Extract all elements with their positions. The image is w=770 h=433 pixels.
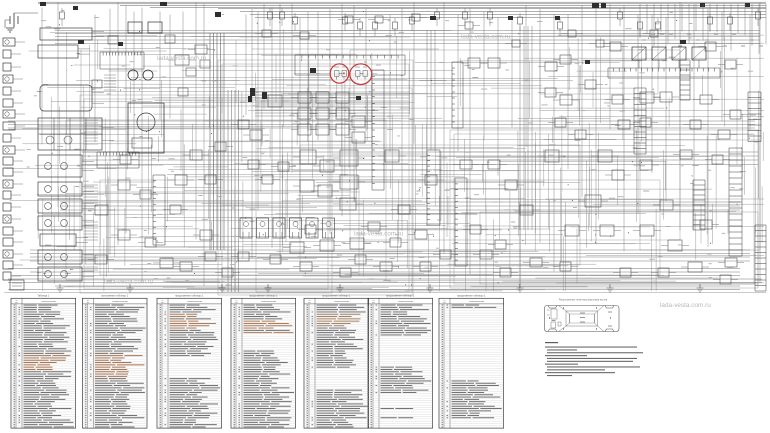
component A89: [495, 240, 506, 249]
component A65: [120, 155, 131, 164]
fuse F6: [592, 3, 599, 8]
wire stub comb: [84, 185, 98, 206]
connector X5 ECU: [427, 150, 440, 225]
svg-text:Расположение точек масс/разъем: Расположение точек масс/разъемов жгутов: [559, 299, 608, 302]
connector XL19: [3, 250, 13, 258]
component A85: [730, 110, 741, 119]
wire bundle ribbon R6 vertical: [520, 26, 532, 230]
component A16: [468, 58, 480, 68]
ground: [337, 284, 344, 292]
legend table group 2 row lines: [82, 306, 147, 426]
component A34: [300, 262, 312, 271]
component small: [92, 80, 102, 88]
wire trunk V25: [341, 4, 343, 217]
relay K13: [692, 47, 706, 60]
wire trunk V1: [41, 8, 43, 145]
wire stub comb: [104, 75, 116, 90]
component A102: [412, 14, 420, 21]
component small: [186, 68, 196, 76]
component A75: [555, 118, 566, 127]
component A87: [725, 60, 736, 69]
notes title: [545, 342, 558, 343]
component A7: [340, 175, 358, 189]
wire: [13, 102, 23, 104]
wire: [13, 241, 23, 243]
fuse F2: [160, 2, 167, 6]
component U10 (left stack): [38, 250, 82, 264]
terminal strip XT6: [634, 88, 646, 154]
wire: [76, 241, 88, 243]
component A115: [336, 108, 349, 119]
connector XL2: [3, 50, 11, 58]
wire: [15, 113, 25, 115]
wire trunk V29: [401, 8, 403, 231]
component A62: [278, 162, 289, 171]
wire: [92, 31, 104, 33]
component A70: [500, 268, 511, 277]
component U4 (left stack): [38, 118, 102, 150]
component A69: [420, 262, 431, 271]
component A99: [300, 32, 309, 39]
wire: [11, 275, 21, 277]
svg-text:lada-vesta.com.ru: lada-vesta.com.ru: [157, 55, 207, 62]
wire band y30: [55, 31, 760, 44]
component A25: [585, 195, 601, 207]
component small: [108, 36, 118, 44]
wire: [78, 48, 90, 50]
connector X2 (pin strip): [97, 152, 139, 168]
wire: [102, 127, 114, 129]
svg-text:Наименование: Наименование: [398, 301, 414, 303]
wire: [678, 60, 680, 68]
wire trunk V16: [257, 12, 259, 211]
component A15: [425, 175, 437, 185]
fuse F11: [78, 40, 84, 44]
connector XC6: [323, 218, 335, 238]
legend table group 4 frame: [231, 298, 296, 428]
wire: [82, 191, 94, 193]
wire: [82, 161, 94, 163]
wire: [82, 169, 94, 171]
wire: [13, 230, 23, 232]
wire: [82, 276, 94, 278]
component A76: [575, 130, 586, 139]
svg-text:поз.: поз.: [86, 302, 90, 304]
component A88: [470, 225, 481, 234]
wire bundle ribbon R5 vertical right: [427, 30, 435, 150]
component A97: [145, 238, 156, 247]
component U11 (left stack): [38, 267, 82, 281]
svg-text:продолжение таблицы 1: продолжение таблицы 1: [175, 295, 204, 298]
component A80: [545, 88, 556, 97]
wire trunk V30: [413, 2, 415, 144]
component A45: [460, 160, 472, 169]
wire: [102, 139, 114, 141]
component A55: [660, 200, 673, 210]
wire: [82, 259, 94, 261]
lamp EL1: [5, 40, 9, 44]
connector XL11: [3, 157, 13, 165]
wire trunk V44: [623, 5, 625, 251]
component A61: [262, 175, 273, 184]
wire trunk V36: [511, 18, 513, 128]
component A11: [385, 150, 399, 162]
svg-text:lada-vesta.com.ru: lada-vesta.com.ru: [104, 279, 154, 286]
wire: [15, 149, 25, 151]
wire loop L4: [222, 64, 409, 291]
wire: [5, 13, 38, 28]
component A50: [618, 120, 630, 129]
wire bus B1: [38, 1, 766, 3]
component A93: [305, 225, 316, 234]
legend table group 7 row lines: [439, 306, 504, 426]
wire loop L6: [454, 134, 754, 284]
svg-text:приложение таблицы 1: приложение таблицы 1: [101, 295, 129, 298]
fuse F7: [601, 3, 606, 8]
component A116: [298, 124, 311, 135]
component A13: [320, 240, 334, 251]
note line 5: [547, 358, 637, 359]
wire trunk V51: [721, 12, 723, 122]
note line 6: [547, 361, 633, 362]
wire bus BB7: [8, 289, 740, 291]
fuse FT5: [343, 17, 348, 24]
component A57: [415, 230, 427, 239]
component A108: [238, 120, 249, 129]
component A39: [200, 230, 212, 240]
fuse F5: [310, 68, 316, 73]
component A54: [725, 258, 737, 267]
connector XC5: [306, 218, 318, 238]
component A33: [380, 262, 392, 271]
component A38: [95, 255, 107, 264]
wire band y202: [60, 202, 740, 210]
wire: [82, 225, 94, 227]
wire bus BB2: [30, 271, 740, 273]
component A20: [598, 150, 612, 162]
connector X7: [455, 178, 467, 266]
ground: [219, 284, 226, 292]
wire mesh verticals: [38, 29, 763, 291]
fuse FT13: [518, 17, 523, 24]
connector X8: [153, 175, 165, 245]
legend table group 4 row text: [234, 305, 295, 428]
fuse F4: [250, 88, 255, 96]
component A56: [680, 150, 692, 159]
wire trunk V47: [665, 18, 667, 202]
wire trunk V46: [651, 15, 653, 173]
component A32: [480, 250, 492, 259]
note line 9: [547, 369, 605, 370]
component A46: [505, 180, 517, 190]
svg-text:поз.: поз.: [15, 302, 19, 304]
component A22: [640, 92, 654, 103]
component A66: [205, 175, 216, 184]
wire: [11, 137, 21, 139]
wire trunk V2: [57, 2, 59, 207]
fuse FT3: [280, 12, 285, 19]
svg-text:поз.: поз.: [372, 302, 376, 304]
wire: [13, 160, 23, 162]
wire: [11, 90, 21, 92]
legend table group 4 row lines: [231, 306, 296, 426]
wire: [82, 219, 94, 221]
wire stub comb: [84, 120, 98, 144]
wire: [13, 253, 23, 255]
svg-text:продолжение таблицы 1: продолжение таблицы 1: [386, 295, 415, 298]
wire loop L1: [80, 95, 332, 293]
wire: [11, 194, 21, 196]
wire bus B2: [38, 3, 766, 5]
component A84: [712, 155, 723, 164]
component U2 (left stack): [38, 45, 78, 58]
wire trunk V3: [94, 15, 96, 143]
component A68: [340, 268, 351, 277]
wire loop L2: [84, 99, 328, 289]
lamp EL19: [5, 252, 9, 256]
labels top-right: [642, 34, 763, 46]
wire trunk V34: [483, 12, 485, 141]
wire: [13, 78, 23, 80]
component A77: [612, 95, 623, 104]
component A117: [316, 124, 329, 135]
wire trunk V43: [609, 4, 611, 129]
connector XL14: [3, 191, 11, 199]
wire trunk V17: [263, 4, 265, 109]
relay K1: [128, 22, 142, 33]
component A119: [352, 116, 365, 127]
wire: [11, 218, 21, 220]
ground: [6, 28, 14, 32]
ground: [57, 284, 64, 292]
wire trunk V32: [457, 15, 459, 152]
wire: [638, 60, 640, 68]
wire trunk V35: [497, 18, 499, 176]
component A63: [170, 205, 181, 214]
component U5 (left stack): [38, 155, 82, 177]
wire: [15, 41, 25, 43]
component small: [165, 35, 175, 43]
lamp EL10: [5, 148, 9, 152]
fuse FT7: [373, 22, 378, 29]
note line 4: [545, 355, 587, 356]
connector XL13: [3, 180, 13, 188]
connector XL20: [3, 261, 13, 269]
fuse F12: [262, 92, 267, 99]
connector XC1: [240, 218, 252, 238]
legend table group 6 row text: [371, 305, 432, 428]
component A109: [215, 142, 226, 151]
fuse FT1: [60, 12, 65, 19]
wire trunk V14: [245, 15, 247, 116]
wire trunk V31: [443, 2, 445, 254]
ground: [427, 284, 434, 292]
ground: [265, 284, 272, 292]
note line 8: [547, 366, 640, 367]
wire loop L14: [350, 50, 680, 240]
wire bus BB5: [8, 282, 762, 284]
ground: [517, 284, 524, 292]
component A120: [352, 132, 365, 143]
wire trunk V9: [159, 12, 161, 120]
component A100: [345, 16, 353, 23]
wire trunk V52: [749, 15, 751, 131]
wire bus B5: [218, 8, 766, 10]
component A105: [568, 30, 576, 37]
wire trunk V6: [125, 5, 127, 233]
connector XC4: [290, 218, 302, 238]
connector XL6: [3, 99, 13, 107]
component A86: [705, 42, 716, 51]
component A36: [180, 262, 192, 271]
component A28: [640, 225, 654, 236]
wire stub comb: [84, 255, 98, 270]
component A6: [340, 150, 358, 166]
svg-text:Наименование: Наименование: [41, 301, 57, 303]
connector XC3: [273, 218, 285, 238]
component A59: [368, 222, 380, 231]
car wheel rear-left: [605, 306, 614, 309]
fuse FT12: [488, 12, 493, 19]
component A94: [270, 255, 281, 264]
legend table group 7 row text: [442, 305, 502, 428]
component A26: [565, 225, 579, 236]
wire trunk V48: [679, 2, 681, 230]
horn HA1: [128, 70, 138, 80]
wire loop L10: [640, 140, 760, 250]
connector XL16: [3, 215, 11, 223]
legend table group 6 row lines: [368, 306, 433, 426]
component U3 (left stack): [40, 85, 92, 111]
terminal strip XT3: [755, 225, 766, 291]
wire: [82, 270, 94, 272]
component A118: [336, 124, 349, 135]
car wheel rear-right: [605, 329, 614, 332]
wire: [658, 60, 660, 68]
connector XL4: [3, 75, 13, 83]
wire: [82, 208, 94, 210]
wire trunk V37: [525, 5, 527, 147]
component A67: [222, 268, 233, 277]
connector XL21: [3, 272, 11, 280]
component A96: [205, 252, 216, 261]
component A79: [585, 80, 596, 89]
component A113: [298, 108, 311, 119]
fuse FT10: [435, 12, 440, 19]
fuse FT6: [358, 22, 363, 29]
component A111: [316, 92, 329, 103]
wire: [82, 185, 94, 187]
connector XL10: [3, 146, 15, 154]
highlight circle 1 (red): [330, 64, 349, 83]
note line 1: [545, 347, 637, 348]
wire trunk V42: [595, 4, 597, 245]
legend table group 6 frame: [368, 298, 433, 428]
legend table group 5 frame: [304, 298, 369, 428]
wire trunk V4: [109, 9, 111, 255]
fuse F17: [118, 42, 123, 46]
horn HA2: [143, 70, 153, 80]
wire trunk V33: [469, 8, 471, 275]
fuse FT14: [558, 22, 563, 29]
wire bundle ribbon R1: [210, 33, 224, 250]
fuse F15: [555, 16, 560, 20]
wire: [13, 264, 23, 266]
component A27: [600, 225, 614, 236]
highlight circle 2 (red): [350, 64, 372, 85]
svg-text:lada-vesta.com.ru: lada-vesta.com.ru: [461, 34, 511, 41]
wire: [92, 92, 104, 94]
component A110: [298, 92, 311, 103]
car wheel front-left: [548, 306, 557, 309]
legend table group 5 row text: [307, 305, 368, 428]
fuse FT19: [728, 17, 733, 24]
highlight halo 2: [351, 65, 372, 84]
wire trunk V38: [539, 9, 541, 243]
connector X3 dashboard strip: [295, 55, 405, 75]
legend table group 1 frame: [11, 298, 76, 428]
car engine bay details: [547, 309, 561, 328]
fuse FT8: [393, 22, 398, 29]
component A103: [465, 22, 473, 29]
wire trunk V41: [581, 5, 583, 197]
wire band y121: [8, 121, 755, 128]
svg-text:Наименование: Наименование: [469, 301, 485, 303]
component A81: [610, 42, 621, 51]
wire: [11, 206, 21, 208]
wire bus B3: [120, 4, 766, 6]
connector X1 (pin strip): [100, 52, 144, 69]
fuse FT11: [463, 12, 468, 19]
wire: [11, 66, 21, 68]
component A4: [300, 150, 316, 164]
wire trunk V49: [693, 4, 695, 230]
svg-text:продолжение таблицы 1: продолжение таблицы 1: [322, 295, 351, 298]
wire junctions: [52, 12, 750, 286]
legend table group 1 row text: [14, 305, 75, 428]
wire: [13, 183, 23, 185]
component A40: [250, 130, 262, 140]
legend table group 2 frame: [82, 298, 147, 428]
wire trunk V45: [637, 15, 639, 214]
wire loop L13: [100, 180, 660, 275]
fuse F10: [745, 3, 750, 7]
wire bus B4: [150, 7, 766, 9]
component A17: [488, 58, 500, 68]
component A112: [336, 92, 349, 103]
component A74: [720, 275, 731, 284]
fuse box F strip: [608, 68, 720, 78]
lamp EL7: [5, 112, 9, 116]
wire trunk V19: [279, 4, 281, 264]
wire trunk V10: [169, 15, 171, 119]
starter M1: [128, 103, 164, 153]
fuse F14: [508, 16, 513, 20]
component A31: [530, 258, 542, 267]
component A8: [300, 180, 314, 192]
wire trunk V50: [707, 9, 709, 247]
wire trunk V20: [291, 4, 293, 173]
terminal strip XT4: [693, 180, 705, 230]
wire trunk V39: [553, 15, 555, 272]
ground: [607, 284, 614, 292]
note line 10: [545, 372, 615, 373]
lamp EL16: [5, 217, 9, 221]
battery GB1: [10, 13, 18, 27]
fuse FT18: [708, 17, 713, 24]
wire trunk V40: [567, 15, 569, 170]
connector XL1: [3, 38, 15, 46]
